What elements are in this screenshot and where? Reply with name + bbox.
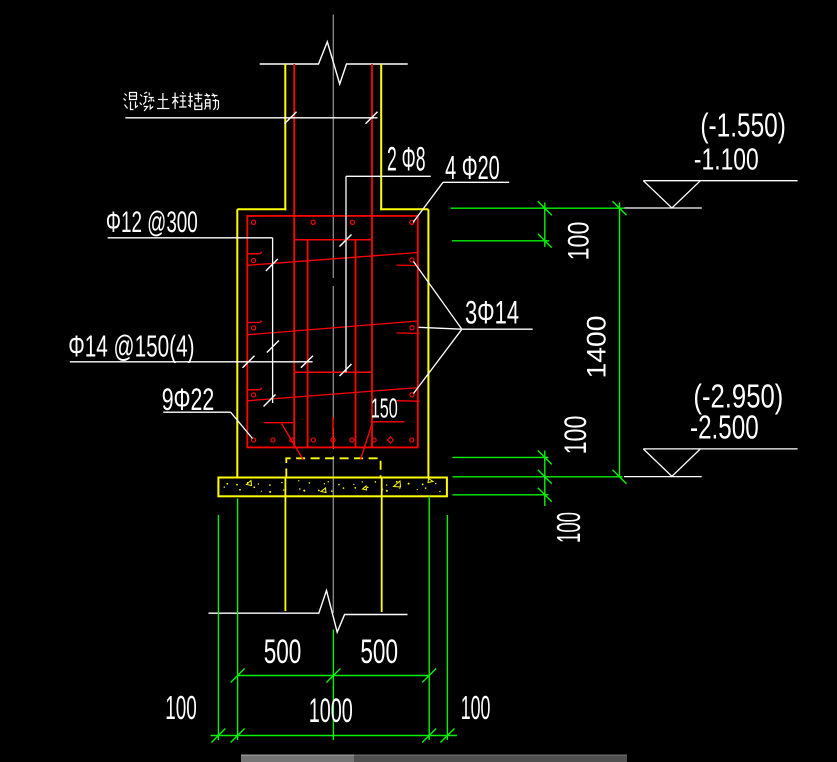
4phi20 underline (443, 181, 509, 183)
inner stirrup right leg (355, 240, 357, 448)
2phi8 leader vertical (345, 176, 347, 372)
dim chain bottom (211, 735, 457, 737)
svg-text:9Φ22: 9Φ22 (162, 381, 215, 417)
scrollbar thumb (241, 755, 354, 762)
label hunningtu zhu chajin (concrete column dowel) (124, 92, 219, 111)
phi12 slash 3 (264, 395, 276, 407)
elevation marker -1.100 triangle (643, 181, 700, 208)
tick v1 457.4 (538, 450, 552, 464)
tick v2 208.2 (613, 201, 627, 215)
center bottom bar (332, 417, 334, 447)
ext line footing top (452, 476, 622, 478)
bottom break line (208, 590, 407, 632)
below-footing right line (381, 478, 383, 613)
tick 500 dim 333.4 (326, 669, 340, 683)
150 label underline left (264, 422, 293, 424)
svg-text:Φ12 @300: Φ12 @300 (106, 206, 198, 239)
pedestal top right step (380, 208, 428, 210)
tie line 1 (247, 253, 417, 266)
tick v2 476.8 (613, 470, 627, 484)
tie hook left 1 (247, 252, 262, 254)
tie hook left 2 (247, 321, 262, 323)
stirrup cage outline (247, 216, 417, 448)
9phi22 leader diagonal (231, 412, 253, 438)
svg-text:1400: 1400 (582, 316, 611, 379)
3phi14 underline (462, 328, 533, 330)
column top break line (260, 42, 408, 84)
rebar diamond bottom row (387, 437, 393, 443)
ext line pedestal top (451, 207, 625, 209)
rebar section circles left column (252, 220, 256, 442)
column left edge (284, 64, 286, 210)
rebar section circles bottom row (271, 438, 414, 442)
9phi22 underline (163, 411, 230, 413)
svg-text:-1.100: -1.100 (694, 144, 759, 177)
footing slab outline (218, 478, 447, 497)
below-footing left line (284, 478, 286, 612)
svg-text:100: 100 (461, 689, 491, 726)
rebar section circles right column (410, 220, 414, 397)
elevation marker -2.500 triangle (643, 449, 700, 476)
svg-text:1000: 1000 (309, 691, 353, 729)
150 label underline right (370, 421, 404, 423)
leader slash at left bar (285, 112, 297, 124)
column centerline (332, 15, 334, 614)
ext line footing bottom (452, 494, 548, 496)
svg-text:(-1.550): (-1.550) (700, 106, 786, 143)
tick v1 494.8 (538, 488, 552, 502)
leader slash at right bar (366, 112, 378, 124)
tick bottom chain 429.2 (422, 729, 436, 743)
4phi20 leader diagonal (413, 182, 443, 222)
pedestal left edge (236, 209, 238, 477)
tick v1 240.8 (538, 234, 552, 248)
footing concrete hatch speckles (224, 480, 441, 493)
leader line concrete column dowels (125, 117, 377, 119)
column right edge (380, 64, 382, 210)
elevation marker -2.500 top line (643, 448, 797, 450)
svg-text:100: 100 (558, 416, 594, 455)
svg-text:500: 500 (264, 633, 302, 671)
tie line 2 (247, 321, 417, 335)
rebar section circles top row (311, 220, 355, 224)
tie hook right 1 (397, 264, 420, 267)
tie hook left 3 (247, 388, 262, 390)
dim line 500 500 (238, 675, 430, 677)
column rebar right (371, 64, 373, 447)
tick 500 dim 237.6 (231, 669, 245, 683)
dim line v1 lower (544, 451, 546, 507)
svg-text:100: 100 (165, 689, 197, 726)
footing hatch triangles (247, 479, 434, 493)
150 leader diagonal right (361, 423, 373, 460)
column rebar left (293, 64, 295, 447)
tick 500 dim 429.2 (422, 669, 436, 683)
pedestal top left step (237, 208, 286, 210)
tick bottom chain 447.4 (440, 729, 454, 743)
tick bottom chain 218.4 (211, 729, 225, 743)
ext line dashed box top (452, 456, 548, 458)
150 leader diagonal left (282, 424, 304, 460)
ext line center (332, 630, 334, 741)
phi14 slash 1 (243, 356, 255, 368)
svg-text:100: 100 (563, 222, 596, 261)
2phi8 leader underline (346, 175, 431, 177)
ext line footing right (446, 515, 448, 740)
2phi8 slash top (340, 235, 352, 247)
svg-text:2 Φ8: 2 Φ8 (387, 140, 426, 178)
ext line cover 100 (452, 240, 549, 242)
phi12 slash 2 (267, 341, 279, 353)
3phi14 leader lower (414, 329, 462, 393)
ext line pedestal right (428, 497, 430, 741)
scrollbar track (241, 755, 627, 762)
svg-text:100: 100 (550, 512, 588, 543)
svg-text:4 Φ20: 4 Φ20 (445, 149, 500, 186)
phi12 leader vertical (272, 238, 274, 403)
inner stirrup bottom (294, 371, 372, 373)
elevation marker -1.100 top line (643, 180, 797, 182)
tie hook right 2 (397, 332, 420, 335)
svg-text:Φ14 @150(4): Φ14 @150(4) (68, 331, 194, 364)
dim line v1 upper (544, 203, 546, 248)
elevation marker -2.500 level line (624, 476, 702, 478)
tick v1 208.2 (538, 201, 552, 215)
tie line 3 (247, 388, 417, 401)
pedestal right edge (427, 209, 429, 477)
ext line footing left (217, 515, 219, 740)
tick v1 476.8 (538, 470, 552, 484)
svg-text:150: 150 (371, 394, 398, 425)
3phi14 leader middle (419, 327, 462, 329)
svg-text:3Φ14: 3Φ14 (465, 295, 519, 331)
phi12 slash 1 (266, 259, 278, 271)
lap-zone dashed box (286, 458, 380, 477)
phi14 leader line (70, 361, 313, 363)
dim line 1400 (619, 203, 621, 477)
inner stirrup left leg (307, 240, 309, 448)
phi14 slash 2 (301, 356, 313, 368)
tick bottom chain 237.6 (231, 729, 245, 743)
3phi14 leader upper (414, 262, 462, 330)
inner stirrup top (294, 239, 372, 241)
tie hook right 3 (397, 400, 420, 403)
svg-text:-2.500: -2.500 (690, 408, 759, 446)
ext line pedestal left (237, 499, 239, 741)
2phi8 slash bottom (340, 364, 352, 376)
svg-text:500: 500 (360, 633, 398, 671)
phi12 underline (108, 237, 273, 239)
elevation marker -1.100 level line (624, 207, 702, 209)
